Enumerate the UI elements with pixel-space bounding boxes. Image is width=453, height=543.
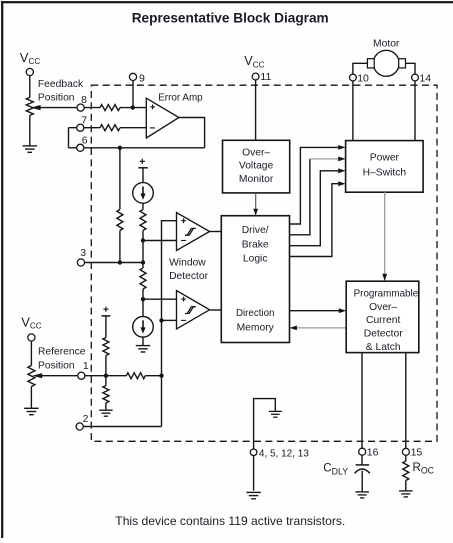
wire comparator B - input to input node [162, 319, 177, 321]
wire comparator B + input to node B [142, 298, 176, 300]
pin 2 wire to input node [80, 426, 162, 428]
terminal VCC reference [30, 338, 32, 366]
wire supply bar to current source [142, 168, 144, 183]
wire over-current detector to pin 15 / ROC [405, 353, 407, 461]
wire resistor to input node [145, 375, 161, 377]
wire pin 7 to inverting input resistor [69, 127, 101, 129]
ground (reference pot) [24, 407, 39, 409]
pin 16 [359, 448, 366, 455]
current source I1 (upper window bias) [133, 183, 154, 204]
motor brush terminal right [399, 59, 406, 68]
pin 9 and wire down to + input node [132, 77, 134, 108]
svg-text:4, 5, 12, 13: 4, 5, 12, 13 [259, 447, 309, 459]
wire error-amp node down to divider resistor [119, 148, 121, 210]
svg-text:This device contains 119 activ: This device contains 119 active transist… [115, 514, 345, 528]
svg-text:14: 14 [419, 72, 431, 84]
wire comparator A - input to node A [143, 240, 177, 242]
wire motor right terminal to pin 14 to H-switch [406, 63, 416, 140]
positive supply stub (reference divider) [103, 307, 108, 312]
wire over-current detector to pin 16 / CDLY [361, 353, 363, 465]
wire resistor to ground [405, 481, 407, 491]
svg-text:Drive/: Drive/ [242, 225, 269, 236]
block: Over-Voltage Monitor [223, 140, 290, 193]
terminal VCC feedback [29, 72, 31, 97]
resistor R (reference divider lower) [103, 386, 109, 403]
svg-text:Power: Power [370, 153, 400, 164]
svg-text:Feedback: Feedback [38, 79, 84, 90]
motor M1 [373, 50, 399, 76]
current source I2 (lower window bias) [133, 317, 154, 338]
ground (reference divider) [99, 409, 113, 411]
motor brush terminal left [367, 59, 374, 68]
wire resistor to error amp - [120, 127, 146, 129]
node: pin3 x error-amp chain [118, 260, 122, 264]
node: input line x reference resistor [159, 374, 163, 378]
ground (internal, pins 4/5/12/13) [269, 410, 282, 412]
svg-text:Detector: Detector [364, 329, 403, 340]
wire pin 8 to pot wiper [40, 107, 100, 109]
block: Power H-Switch [346, 141, 424, 193]
pin 3 wire [81, 262, 143, 264]
svg-text:Current: Current [366, 315, 400, 326]
svg-text:6: 6 [82, 135, 88, 147]
wire drive output 4 to H-switch [290, 184, 339, 257]
svg-text:Position: Position [38, 361, 75, 372]
positive supply stub (upper current source) [140, 159, 145, 164]
wire over-voltage monitor to drive/brake logic [255, 193, 257, 210]
wire current source to resistor [142, 203, 144, 209]
svg-text:Representative Block Diagram: Representative Block Diagram [132, 11, 329, 26]
IC package boundary (dashed) [91, 85, 437, 441]
wire resistor to ground [105, 403, 107, 410]
wire pin 1 line [42, 375, 127, 377]
pin 3 [77, 259, 84, 266]
op-amp U1 Error Amp [146, 98, 179, 138]
resistor R (pin 8 to error amp non-inverting input) [100, 105, 120, 111]
block: Drive/Brake Logic + Direction Memory [221, 216, 289, 343]
pin 10 [350, 74, 357, 81]
svg-text:7: 7 [81, 114, 87, 126]
block: Programmable Over-Current Detector & Latch [346, 281, 419, 352]
node: input line x comparator B - [159, 318, 163, 322]
pin 2 [76, 423, 83, 430]
svg-text:Window: Window [169, 257, 206, 268]
node: pin1 x reference divider [104, 374, 108, 378]
pin 4, 5, 12, 13 [250, 449, 257, 456]
wire drive output 2 to H-switch (gray run) [290, 159, 310, 235]
pin 1 [78, 372, 85, 379]
potentiometer Reference Position [28, 366, 35, 387]
svg-text:11: 11 [260, 71, 271, 83]
wire drive output 3 to H-switch [290, 171, 339, 246]
resistor R (pin 7 to error amp inverting input) [100, 125, 120, 131]
svg-text:10: 10 [357, 72, 369, 84]
ground (ROC) [399, 490, 413, 492]
svg-text:Voltage: Voltage [239, 161, 274, 172]
node: pin3 x window divider [141, 260, 145, 264]
svg-text:Direction: Direction [236, 308, 275, 319]
pin 11 [252, 73, 259, 80]
wire capacitor to ground [361, 471, 363, 492]
svg-text:1: 1 [83, 360, 89, 372]
ground (feedback pot) [23, 145, 38, 147]
svg-text:Monitor: Monitor [239, 174, 274, 185]
resistor R (reference divider upper) [103, 338, 109, 356]
svg-text:Error Amp: Error Amp [158, 92, 203, 103]
svg-text:Memory: Memory [237, 322, 275, 333]
wire resistor to pin 3 line [119, 231, 121, 263]
wire loop pin 7 to pin 6 [68, 128, 70, 148]
svg-text:Logic: Logic [243, 254, 268, 265]
wire pot to ground [30, 387, 32, 409]
wire motor left terminal to pin 10 to H-switch [353, 63, 368, 140]
ground (CDLY) [355, 491, 369, 493]
resistor R (error amp node to pin 3) [117, 210, 123, 231]
svg-text:Over–: Over– [369, 302, 397, 313]
pin 15 [402, 448, 409, 455]
ground (window bias chain) [136, 345, 151, 347]
node: junction below pin 9 [131, 105, 135, 109]
svg-text:16: 16 [367, 446, 379, 458]
svg-text:Detector: Detector [169, 271, 208, 282]
svg-text:Over–: Over– [242, 147, 270, 158]
wire over-current latch to direction memory (gray) [297, 327, 347, 329]
pin 8 [77, 104, 84, 111]
wire supply bar to resistor [105, 316, 107, 338]
wire resistor to error amp + [120, 107, 146, 109]
wire H-switch sense to over-current detector (gray) [384, 192, 386, 274]
svg-text:3: 3 [80, 247, 86, 259]
node B: lower threshold junction [141, 297, 145, 301]
svg-text:8: 8 [81, 94, 87, 106]
svg-text:Reference: Reference [38, 346, 86, 357]
svg-text:Position: Position [38, 93, 75, 104]
wiper arrow into reference pot [32, 373, 42, 378]
comparator U2B (window detector lower) [177, 291, 210, 330]
resistor R (pin 1 to window input node) [126, 373, 145, 379]
wire current source to ground [142, 337, 144, 345]
resistor R (upper window threshold) [140, 210, 146, 231]
capacitor CDLY (polarized) [356, 464, 370, 466]
potentiometer Feedback Position [26, 97, 33, 115]
wire pins 4,5,12,13 riser [254, 399, 276, 491]
svg-text:2: 2 [83, 413, 89, 425]
pin 6 and feedback wire [69, 147, 205, 149]
wire to pin 1 node [105, 356, 107, 386]
wire comparator A output to logic [210, 231, 222, 233]
ground (external, pins 4/5/12/13) [246, 491, 261, 493]
svg-text:Motor: Motor [373, 39, 400, 50]
svg-text:9: 9 [139, 72, 145, 84]
pin 11 wire to over-voltage monitor [255, 77, 257, 141]
wire input node: comparator A + down to pin 2 [162, 221, 177, 427]
node A: upper threshold junction [141, 238, 145, 242]
svg-text:& Latch: & Latch [366, 342, 401, 353]
wire comparator B output to logic [210, 309, 222, 311]
resistor R (lower window threshold) [140, 268, 146, 289]
svg-text:Brake: Brake [242, 239, 269, 250]
pin 14 [412, 74, 419, 81]
wiper arrow into feedback pot [31, 105, 41, 110]
wire resistor to node A [142, 231, 144, 269]
resistor ROC [403, 461, 409, 481]
wire pot to ground [29, 115, 31, 145]
wire error amp output to pin-6 feedback line [179, 118, 205, 148]
wire direction memory to over-current detector [290, 310, 340, 312]
svg-text:Programmable: Programmable [354, 288, 419, 299]
svg-text:15: 15 [411, 446, 423, 458]
node: error-amp output feedback junction [118, 146, 122, 150]
comparator U2A (window detector upper) [177, 213, 210, 251]
wire drive output 1 to H-switch [290, 147, 339, 224]
wire resistor to node B [142, 289, 144, 317]
svg-text:H–Switch: H–Switch [363, 168, 407, 179]
